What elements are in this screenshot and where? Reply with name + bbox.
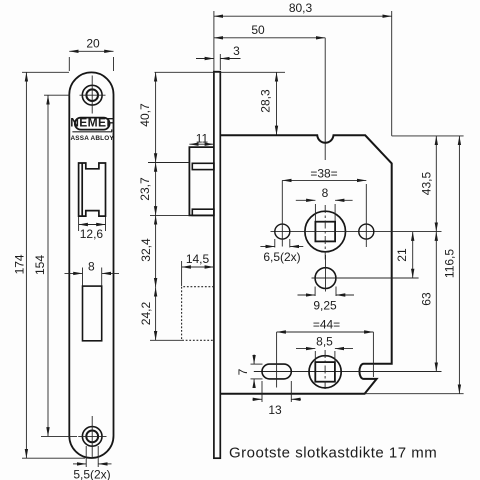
svg-text:43,5: 43,5 xyxy=(420,171,434,195)
svg-text:Grootste slotkastdikte 17 mm: Grootste slotkastdikte 17 mm xyxy=(229,445,437,462)
dimension 32,4 xyxy=(139,215,190,287)
svg-text:32,4: 32,4 xyxy=(139,238,153,262)
dimension 43,5 xyxy=(420,136,437,232)
dimension =38= xyxy=(282,167,366,181)
svg-text:40,7: 40,7 xyxy=(138,103,152,127)
dashed deadbolt (side view) xyxy=(182,287,214,341)
svg-text:ASSA ABLOY: ASSA ABLOY xyxy=(70,135,114,142)
svg-text:8,5: 8,5 xyxy=(316,335,333,349)
dimension 28,3 xyxy=(259,72,277,135)
screw circle right 6,5 xyxy=(359,184,374,247)
dimension 9,25 xyxy=(298,287,355,313)
extension bottom edge right xyxy=(365,393,464,395)
dimension 8,5 xyxy=(296,335,353,362)
dimension 174 xyxy=(13,72,86,458)
svg-text:=38=: =38= xyxy=(310,167,337,181)
extension top edge right xyxy=(392,135,464,137)
latch block (side view) xyxy=(189,147,214,215)
dimension 24,2 xyxy=(139,287,182,340)
svg-text:154: 154 xyxy=(33,255,47,275)
dimension 80,3 xyxy=(214,1,392,136)
oval hole left xyxy=(262,332,291,388)
faceplate side view plate xyxy=(214,72,220,459)
svg-text:NEMEF: NEMEF xyxy=(70,116,114,130)
dimension 8 (front) xyxy=(65,260,120,286)
svg-text:8: 8 xyxy=(88,260,95,274)
svg-text:80,3: 80,3 xyxy=(289,1,313,15)
svg-text:=44=: =44= xyxy=(313,318,340,332)
dimension =44= xyxy=(277,318,374,378)
dimension 20 xyxy=(69,37,113,72)
follower hole (bottom) xyxy=(309,350,341,391)
dimension 6,5(2x) xyxy=(260,239,303,264)
follower hole (top) xyxy=(305,205,346,262)
dimension 5,5(2x) xyxy=(73,446,112,480)
svg-text:24,2: 24,2 xyxy=(139,301,153,325)
svg-text:9,25: 9,25 xyxy=(313,299,337,313)
svg-text:12,6: 12,6 xyxy=(80,227,104,241)
horizontal centerline bottom row xyxy=(254,371,442,373)
dimension 154 xyxy=(33,95,77,436)
dimension 13 xyxy=(253,381,302,417)
svg-text:28,3: 28,3 xyxy=(259,89,273,113)
dimension 40,7 xyxy=(138,72,156,162)
dimension 11 xyxy=(189,132,214,146)
svg-text:7: 7 xyxy=(236,368,250,375)
NEMEF logo xyxy=(70,116,114,142)
svg-text:3: 3 xyxy=(233,44,240,58)
dimension 7 xyxy=(236,355,263,389)
horizontal centerline row 1 xyxy=(271,231,442,233)
dimension 116,5 xyxy=(443,136,460,394)
svg-text:13: 13 xyxy=(268,403,282,417)
svg-text:8: 8 xyxy=(322,186,329,200)
dimension 8 (case) xyxy=(296,186,353,221)
faceplate outline (front view) xyxy=(69,72,113,458)
dimension 21 xyxy=(395,232,413,278)
svg-text:5,5(2x): 5,5(2x) xyxy=(73,468,110,480)
svg-text:11: 11 xyxy=(196,132,209,146)
latch opening (front view) xyxy=(79,163,106,216)
svg-text:6,5(2x): 6,5(2x) xyxy=(263,250,300,264)
svg-text:20: 20 xyxy=(86,37,100,51)
svg-text:116,5: 116,5 xyxy=(443,249,457,278)
svg-text:21: 21 xyxy=(395,248,409,262)
dimension 14,5 xyxy=(182,252,214,286)
dimension 63 xyxy=(420,232,437,372)
cylinder hole 9,25 xyxy=(312,255,419,292)
lock case outline xyxy=(221,135,392,393)
bottom screw hole xyxy=(78,416,106,458)
screw circle left 6,5 xyxy=(275,180,290,246)
deadbolt opening (front view) xyxy=(83,286,102,341)
dimension 50 xyxy=(214,23,325,160)
extension line top of plates xyxy=(155,71,286,73)
svg-text:23,7: 23,7 xyxy=(138,177,152,201)
svg-text:50: 50 xyxy=(251,23,265,37)
svg-text:174: 174 xyxy=(13,254,27,274)
svg-text:63: 63 xyxy=(420,292,434,306)
dimension 23,7 xyxy=(138,163,190,216)
top screw hole xyxy=(80,76,106,114)
svg-text:14,5: 14,5 xyxy=(186,252,210,266)
dimension 12,6 xyxy=(79,217,106,241)
dimension 3 xyxy=(196,44,241,70)
